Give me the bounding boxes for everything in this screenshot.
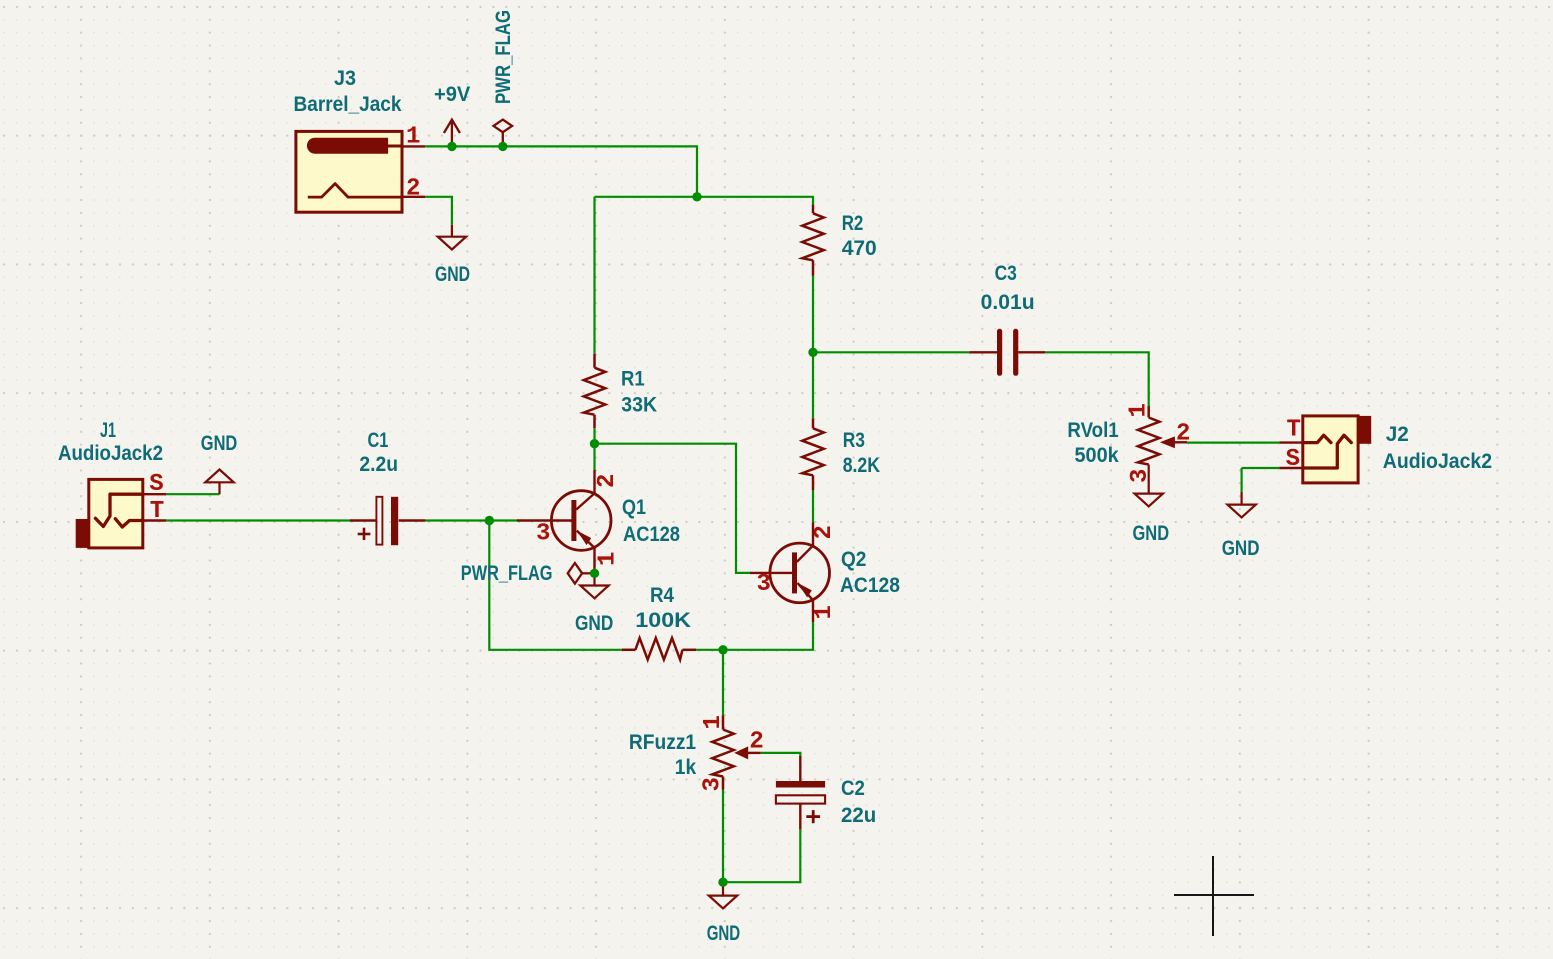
pin 1 of Q1 — [593, 548, 595, 571]
svg-text:PWR_FLAG: PWR_FLAG — [461, 562, 553, 585]
svg-text:GND: GND — [1133, 522, 1170, 545]
wire R3 top to C3 node — [812, 352, 814, 418]
svg-text:3: 3 — [757, 571, 771, 598]
wire R1 bottom to Q1 collector node — [593, 428, 595, 470]
svg-text:AudioJack2: AudioJack2 — [1383, 450, 1492, 473]
svg-text:R1: R1 — [621, 368, 645, 391]
svg-text:3: 3 — [1127, 469, 1154, 483]
pin 2 of Q1 — [593, 470, 595, 493]
pin 1 of J3 — [402, 145, 426, 147]
resistor R2 470 — [802, 205, 824, 276]
pin 2 of Q2 — [812, 523, 814, 546]
cursor crosshair — [1174, 856, 1254, 936]
pin 1 of Q2 — [812, 600, 814, 622]
wire R2 bottom to C3 node — [812, 276, 814, 353]
svg-text:RVol1: RVol1 — [1067, 419, 1119, 442]
svg-text:C2: C2 — [841, 777, 865, 800]
potentiometer RVol1 500k — [1138, 406, 1187, 464]
svg-text:2: 2 — [406, 175, 420, 202]
junction RFuzz1/C2 ground node — [718, 878, 727, 887]
wire C3 right to RVol1 pin1 — [1045, 352, 1149, 406]
wire J2 S to GND — [1242, 467, 1280, 469]
wire node to Q2 base — [595, 444, 751, 573]
svg-text:2: 2 — [749, 729, 763, 756]
svg-text:C3: C3 — [995, 262, 1017, 285]
svg-text:GND: GND — [201, 432, 238, 455]
svg-text:470: 470 — [842, 237, 877, 260]
svg-text:2: 2 — [1176, 420, 1190, 447]
wire node to Q2 emitter — [723, 622, 813, 650]
svg-text:T: T — [1287, 417, 1301, 444]
potentiometer RFuzz1 1k — [712, 716, 760, 790]
junction R1/Q1 collector node — [590, 439, 599, 448]
wire J1 T to C1 — [166, 519, 350, 521]
svg-text:AudioJack2: AudioJack2 — [58, 442, 163, 465]
connector J3 Barrel_Jack — [296, 131, 425, 212]
svg-text:GND: GND — [1222, 537, 1260, 560]
svg-text:1: 1 — [700, 715, 727, 729]
wire RVol1 wiper to J2 T — [1187, 442, 1279, 444]
wire base node down to R4 — [489, 521, 622, 650]
wire C1 to Q1 base — [425, 519, 518, 521]
svg-text:+9V: +9V — [434, 83, 470, 106]
svg-text:S: S — [149, 471, 163, 498]
ground GND above J1 S wire (rotated 180) — [205, 470, 233, 495]
wire J3 pin2 to GND — [425, 197, 452, 225]
wire J2 S down — [1240, 468, 1242, 492]
svg-text:Q2: Q2 — [841, 548, 866, 571]
ground GND under RVol1 — [1135, 465, 1163, 507]
svg-text:1: 1 — [406, 124, 420, 151]
wire R4 right to node — [696, 649, 723, 651]
resistor R1 33K — [584, 354, 606, 428]
svg-text:PWR_FLAG: PWR_FLAG — [492, 10, 515, 104]
junction Q1 emitter node — [590, 569, 599, 578]
junction +9V at J3 pin1 — [447, 142, 456, 151]
svg-text:C1: C1 — [368, 429, 389, 452]
wire J1 S to GND — [166, 493, 219, 495]
transistor Q2 AC128 PNP — [750, 523, 830, 623]
svg-text:RFuzz1: RFuzz1 — [629, 731, 696, 754]
capacitor C2 22u polarized — [776, 756, 825, 829]
wire R3 bottom to Q2 collector — [812, 490, 814, 523]
svg-text:R4: R4 — [650, 584, 674, 607]
svg-text:J3: J3 — [334, 67, 356, 90]
power +9V symbol — [444, 120, 460, 147]
svg-text:Q1: Q1 — [622, 496, 646, 519]
ground GND under J2 S — [1227, 492, 1255, 518]
power flag PWR_FLAG top — [494, 120, 513, 147]
wire RFuzz1 wiper to C2 top — [761, 753, 801, 757]
svg-text:GND: GND — [707, 922, 741, 945]
svg-text:500k: 500k — [1075, 444, 1120, 467]
svg-text:S: S — [1286, 446, 1300, 473]
connector J2 AudioJack2 — [1279, 416, 1371, 483]
svg-text:T: T — [150, 498, 164, 525]
connector J1 AudioJack2 — [76, 479, 167, 548]
svg-text:GND: GND — [435, 263, 470, 286]
svg-text:J2: J2 — [1386, 423, 1409, 446]
svg-text:0.01u: 0.01u — [981, 291, 1035, 314]
pin S of J1 — [143, 493, 166, 495]
wire C2 bottom to node — [723, 829, 800, 882]
svg-text:AC128: AC128 — [623, 523, 680, 546]
svg-text:2: 2 — [811, 525, 838, 539]
junction C1/Q1 base node — [485, 516, 494, 525]
ground GND under Q1 emitter — [580, 573, 608, 598]
svg-text:1: 1 — [1126, 403, 1153, 417]
pin 2 of J3 — [402, 196, 426, 198]
svg-text:3: 3 — [536, 521, 550, 548]
pin T of J1 — [143, 519, 166, 521]
svg-text:3: 3 — [700, 777, 727, 791]
svg-text:33K: 33K — [621, 394, 657, 417]
wire C3 node to C3 left — [813, 351, 969, 353]
svg-text:8.2K: 8.2K — [843, 454, 880, 477]
ground GND bottom node — [709, 882, 737, 908]
junction rail corner node — [692, 192, 701, 201]
wire bus y=196.8 to R2 — [595, 197, 814, 206]
wire node to RFuzz1 pin1 — [722, 650, 724, 716]
svg-text:100K: 100K — [635, 609, 691, 632]
junction PWR_FLAG on rail — [498, 142, 507, 151]
svg-text:Barrel_Jack: Barrel_Jack — [294, 93, 402, 116]
transistor Q1 AC128 PNP — [517, 470, 611, 571]
resistor R3 8.2K — [802, 418, 824, 490]
pin T of J2 — [1279, 441, 1303, 443]
wire RFuzz1 pin3 to node — [722, 790, 724, 883]
svg-text:1: 1 — [811, 605, 838, 619]
capacitor C3 0.01u — [969, 329, 1045, 376]
svg-text:R2: R2 — [842, 212, 864, 235]
svg-text:GND: GND — [575, 612, 613, 635]
svg-text:22u: 22u — [841, 804, 876, 827]
svg-text:1k: 1k — [675, 756, 697, 779]
svg-text:1: 1 — [595, 552, 622, 566]
svg-text:2.2u: 2.2u — [359, 453, 398, 476]
svg-text:AC128: AC128 — [840, 574, 900, 597]
power flag PWR_FLAG at Q1 emitter — [568, 563, 595, 584]
resistor R4 100K horizontal — [622, 638, 696, 660]
wire +9V rail from J3 pin1 — [425, 146, 697, 196]
capacitor C1 2.2u polarized — [350, 497, 426, 545]
ground GND under J3 — [438, 225, 466, 250]
junction R4/RFuzz1 node — [718, 645, 727, 654]
wire down to R1 top — [593, 197, 595, 354]
svg-text:2: 2 — [594, 474, 621, 488]
svg-text:J1: J1 — [100, 419, 116, 442]
pin S of J2 — [1279, 467, 1303, 469]
svg-text:R3: R3 — [843, 429, 865, 452]
junction R2/R3/C3 node — [808, 348, 817, 357]
